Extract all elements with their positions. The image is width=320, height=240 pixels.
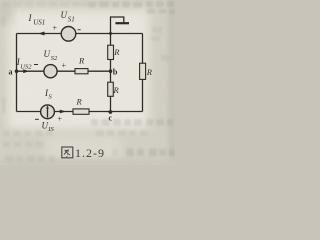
label +/- of UIS <box>35 115 63 124</box>
label US2 <box>44 49 59 62</box>
wire left branch <box>16 34 18 112</box>
wire right branch <box>142 34 144 112</box>
label +/- of US2 <box>34 61 67 70</box>
resistor R row2 <box>75 56 88 74</box>
label IUS2 <box>16 57 32 71</box>
current arrow right of IS <box>60 110 66 114</box>
resistor R bottom <box>73 97 89 115</box>
label IUS1 <box>28 13 46 27</box>
resistor R upper middle <box>108 45 121 59</box>
current source IS <box>41 105 55 119</box>
caption text 1.2-9 <box>75 146 105 160</box>
paper grain <box>0 0 175 165</box>
ground <box>111 17 130 34</box>
label US1 <box>61 10 75 24</box>
current arrow IUS1 <box>38 32 44 36</box>
voltage source US1 <box>61 27 76 42</box>
node c <box>109 110 113 122</box>
resistor R right <box>140 63 153 79</box>
caption figure number: CJK char drawn as strokes <box>62 147 73 158</box>
wire bottom row <box>17 111 143 113</box>
label IS <box>44 88 53 101</box>
wire row a-b <box>17 70 111 72</box>
label UIS <box>42 121 55 134</box>
wire middle branch <box>110 34 112 112</box>
bleed-through text blobs (back of page) <box>1 1 175 162</box>
paper background <box>0 0 178 167</box>
junction dot at ground <box>109 32 112 35</box>
wire top: node junction row <box>17 33 143 35</box>
label +/- of US1 <box>53 24 81 33</box>
node a <box>9 68 19 77</box>
node b <box>109 66 118 76</box>
current arrow IUS2 <box>23 69 29 73</box>
resistor R lower middle <box>108 82 120 96</box>
voltage source US2 <box>44 65 57 78</box>
